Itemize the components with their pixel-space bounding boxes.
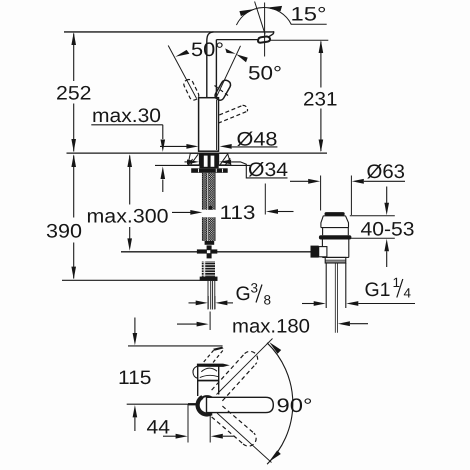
svg-text:max.300: max.300: [87, 206, 169, 228]
svg-text:G1: G1: [365, 279, 391, 301]
max.30 leader and arrows: [91, 125, 163, 139]
plan spout bar: [207, 397, 274, 412]
15 deg arc arrowhead right: [266, 6, 282, 11]
50deg left arrowhead: [175, 50, 189, 57]
coupling: [325, 257, 346, 263]
mounting nut: [191, 168, 228, 173]
44 dimension: [188, 405, 210, 443]
svg-text:max.30: max.30: [92, 105, 161, 127]
tail pipes: [208, 281, 215, 310]
40-53 dimension: [386, 187, 388, 204]
dimension 231 line: [320, 42, 322, 152]
svg-text:50°: 50°: [248, 63, 282, 85]
drain flange: [321, 216, 349, 228]
50deg right bowtie arrowheads: [225, 48, 235, 53]
svg-text:252: 252: [56, 83, 92, 105]
svg-text:40-53: 40-53: [361, 218, 415, 240]
drain body: [322, 240, 348, 258]
dashed lever handle left: [182, 78, 200, 101]
aerator outlined lens: [258, 36, 270, 42]
o-ring: [319, 235, 352, 239]
svg-text:Ø34: Ø34: [248, 159, 288, 181]
dimension 231 extension line: [271, 39, 329, 41]
cross fitting: [207, 245, 212, 258]
dia34 arrows and leader: [185, 161, 188, 163]
90 deg arc: [267, 343, 293, 464]
svg-text:1: 1: [393, 275, 401, 290]
svg-text:90°: 90°: [277, 395, 313, 417]
spout body: left curve, underside, neck: [207, 32, 214, 98]
max.180 dimension: [209, 312, 211, 331]
G 3/8 dimension: [208, 296, 215, 309]
rod clamp: [319, 247, 327, 257]
plan body circle: [198, 396, 216, 414]
plan body: [198, 365, 219, 396]
solid lever handle: [214, 79, 233, 102]
svg-text:Ø63: Ø63: [367, 161, 406, 183]
390 bottom reference line: [62, 279, 218, 281]
115 dimension: [134, 318, 136, 334]
vertical centerline at spout tip: [264, 3, 266, 57]
faucet body rectangle: [199, 98, 219, 152]
deck top line: [67, 152, 328, 154]
max.300 dimension: [129, 156, 131, 205]
svg-text:231: 231: [303, 89, 338, 111]
svg-text:4: 4: [404, 286, 412, 301]
threaded tails: [202, 261, 215, 276]
115 top reference line: [128, 345, 223, 347]
svg-text:115: 115: [118, 367, 152, 389]
svg-text:G: G: [236, 283, 251, 305]
113 right arrow: [266, 209, 278, 214]
svg-text:113: 113: [220, 202, 256, 224]
50deg left leader: [168, 46, 196, 99]
dashed lever handle lower right: [218, 105, 247, 123]
spout tip bevel: [268, 31, 273, 37]
inner rod: [335, 263, 337, 333]
15 deg arc: [236, 8, 291, 26]
115 bottom reference line: [127, 403, 196, 405]
svg-text:390: 390: [46, 221, 82, 243]
dashed arm lower: [212, 406, 254, 444]
svg-text:max.180: max.180: [232, 315, 310, 337]
15 deg slant line: [255, 2, 266, 35]
plan lever dashed: [203, 350, 223, 363]
deck cross-section hatched left: [188, 153, 200, 165]
svg-text:44: 44: [147, 416, 171, 438]
deck bottom line: [155, 164, 250, 166]
15 deg arc arrowhead left: [239, 9, 255, 16]
top reference line / spout top: [64, 31, 274, 33]
drain cap: [325, 212, 345, 216]
hose end nub in gap: [208, 206, 212, 210]
arm centerlines: [217, 339, 273, 463]
svg-text:Ø48: Ø48: [237, 128, 278, 150]
flexible hoses braided: [202, 173, 207, 210]
G 1 1/4 dimension: [302, 303, 315, 305]
hose end fitting: [205, 241, 215, 245]
dia63 arrows: [290, 180, 309, 182]
dia48 arrows: [160, 145, 187, 147]
dia63 extension lines: [321, 176, 352, 216]
113 extension line: [264, 184, 266, 215]
hose column edges: [202, 173, 215, 241]
50deg right leader: [216, 46, 241, 99]
lever tip dark: [213, 347, 223, 351]
dimension 252 line: [73, 34, 75, 152]
mounting nut slots: [199, 169, 223, 173]
supply line to drain: [121, 251, 311, 253]
max.300 arrow to hose: [172, 211, 191, 213]
deck cross-section hatched right: [219, 153, 231, 165]
fraction slashes: [256, 279, 403, 303]
svg-text:50°: 50°: [191, 39, 224, 61]
tailpipe: [326, 263, 346, 308]
dimension 390 line: [73, 156, 75, 279]
dashed arm upper: [212, 354, 256, 401]
svg-text:3: 3: [251, 281, 259, 296]
rod knob: [311, 246, 319, 258]
threaded shank block: [199, 153, 218, 168]
svg-text:15°: 15°: [291, 4, 327, 26]
15 deg label leader: [291, 23, 327, 25]
svg-text:8: 8: [264, 293, 272, 308]
